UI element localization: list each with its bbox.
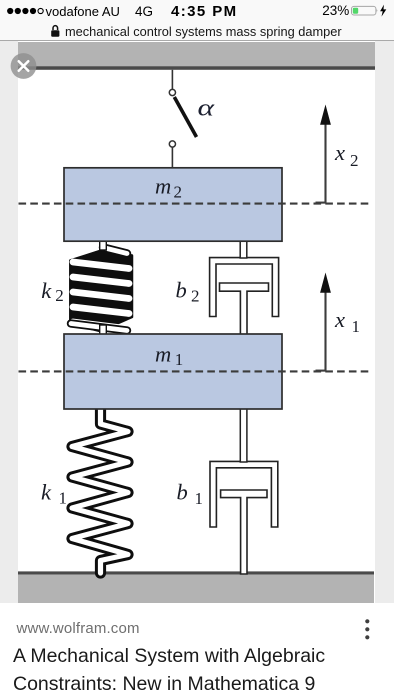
svg-text:x: x (334, 307, 345, 332)
svg-text:2: 2 (55, 286, 64, 305)
svg-text:1: 1 (175, 350, 184, 369)
svg-text:m: m (155, 342, 171, 367)
svg-text:b: b (176, 278, 187, 303)
svg-text:k: k (41, 480, 52, 505)
svg-text:1: 1 (59, 489, 68, 508)
svg-text:2: 2 (350, 151, 359, 170)
svg-text:1: 1 (352, 317, 361, 336)
svg-text:α: α (198, 96, 215, 122)
svg-text:k: k (41, 278, 52, 303)
svg-text:2: 2 (174, 182, 183, 201)
svg-text:2: 2 (191, 286, 200, 305)
svg-text:m: m (155, 174, 171, 199)
svg-text:1: 1 (195, 489, 204, 508)
svg-text:x: x (334, 140, 345, 165)
svg-text:b: b (177, 480, 188, 505)
